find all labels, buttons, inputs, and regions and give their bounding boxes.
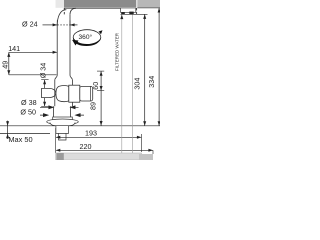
body column: [55, 80, 73, 106]
dim Ø38 left arrow: [40, 106, 53, 109]
handle lever: [80, 86, 93, 101]
svg-text:Max 50: Max 50: [8, 135, 32, 144]
dim Ø34 line: [44, 80, 46, 106]
filtered water knob (D shape): [42, 88, 56, 97]
dim 49 bottom arrow: [7, 70, 10, 75]
dim 49 extension line: [9, 74, 57, 76]
dim 220 line: [56, 149, 153, 151]
undersink unit body: [56, 153, 142, 160]
dim 89 line: [100, 91, 102, 126]
dim 49 line: [8, 52, 10, 75]
dim 141 right arrow: [53, 51, 58, 54]
countertop bottom line: [0, 133, 50, 135]
aerator nozzle left: [121, 12, 125, 14]
dim 193 right arrow: [137, 136, 142, 139]
body top tick: [41, 79, 48, 81]
base skirt: [50, 123, 75, 126]
riser pipe right edge: [70, 14, 72, 80]
dim 220 left arrow: [56, 149, 61, 152]
spout end underline right: [137, 7, 160, 9]
shank stub: [59, 134, 67, 140]
base disc ellipse: [47, 119, 79, 125]
valve center lobe: [56, 86, 69, 102]
dim Ø24 extension tick left: [56, 20, 58, 25]
dim 60/89 ext line mid: [97, 90, 104, 92]
dim Ø50 left arrow: [40, 114, 48, 117]
dim 193 left arrow: [56, 136, 61, 139]
shank below counter: [56, 126, 69, 133]
svg-text:Ø 50: Ø 50: [20, 108, 36, 117]
svg-text:Ø 34: Ø 34: [39, 63, 48, 79]
dim 304 bottom arrow: [143, 121, 146, 126]
base column: [53, 106, 70, 117]
spout joint dashed edge: [63, 8, 65, 16]
dim 220 right arrow: [148, 149, 153, 152]
dim 141 line: [9, 51, 57, 53]
dim Ø34 bottom arrow: [43, 102, 46, 107]
spout end step dashed edge: [136, 8, 138, 16]
dim 304 line: [144, 14, 146, 126]
svg-text:334: 334: [147, 76, 156, 88]
spout horizontal bar dark segment: [64, 0, 136, 8]
dim Max50 line: [7, 121, 9, 139]
svg-text:304: 304: [132, 78, 141, 90]
countertop top line: [0, 125, 160, 127]
spout underline: [64, 7, 136, 9]
dim Max50 top arrow: [6, 121, 9, 126]
aerator housing outline: [121, 8, 136, 12]
svg-text:360°: 360°: [79, 33, 93, 41]
dim 89 bottom arrow: [100, 121, 103, 126]
dim Ø50 right arrow: [76, 114, 84, 117]
dim Ø38 right arrow: [71, 106, 79, 109]
svg-text:220: 220: [80, 142, 92, 151]
dim Ø24 right arrow: [70, 24, 78, 26]
spout horizontal bar light left segment: [56, 0, 65, 8]
extension line tap axis to unit: [55, 128, 57, 153]
outlet extension line: [121, 13, 148, 15]
handle end cap line: [89, 86, 91, 101]
handle hub: [69, 85, 80, 102]
aerator nozzle right: [129, 12, 133, 15]
undersink unit dark head left: [56, 153, 63, 160]
dim 60 line: [100, 71, 102, 91]
dim 60 top arrow: [100, 71, 103, 76]
dim 220 extension line: [152, 150, 154, 154]
elbow outer arc: [57, 10, 66, 26]
dim Ø24 dashes across pipe: [57, 24, 70, 26]
body bottom tick: [41, 105, 48, 107]
svg-text:89: 89: [88, 102, 97, 110]
elbow inner arc: [70, 8, 76, 14]
undersink unit filter right: [139, 154, 153, 160]
dim 304 top arrow: [143, 14, 146, 19]
svg-text:141: 141: [8, 44, 20, 53]
dim Ø34 top arrow: [43, 80, 46, 85]
svg-text:FILTERED WATER: FILTERED WATER: [115, 33, 120, 71]
dim 60 bottom arrow: [100, 86, 103, 91]
filtered water leader line: [121, 15, 123, 153]
base flange: [53, 117, 73, 121]
dim 193 line: [56, 136, 142, 138]
svg-text:49: 49: [1, 61, 10, 69]
riser pipe left edge: [55, 26, 57, 80]
svg-text:Ø 38: Ø 38: [21, 98, 37, 107]
dim Ø24 left arrow: [43, 24, 57, 26]
dim Max50 bottom arrow: [6, 134, 9, 139]
dim 60 ext line top: [97, 70, 104, 72]
svg-text:Ø 24: Ø 24: [22, 19, 38, 28]
filtered water leader arrow: [120, 15, 123, 20]
svg-text:60: 60: [91, 82, 100, 90]
dim 334 top arrow: [158, 8, 161, 13]
svg-text:193: 193: [85, 128, 97, 137]
spout horizontal bar light right segment: [137, 0, 160, 8]
dim 193 extension line: [141, 134, 143, 152]
outlet-to-unit line: [131, 14, 133, 153]
360 symbol disk: [72, 30, 102, 46]
dim 334 line: [158, 8, 160, 126]
dim 49 top arrow: [7, 52, 10, 57]
dim 334 bottom arrow: [158, 121, 161, 126]
dim Ø24 extension tick right: [69, 20, 71, 25]
